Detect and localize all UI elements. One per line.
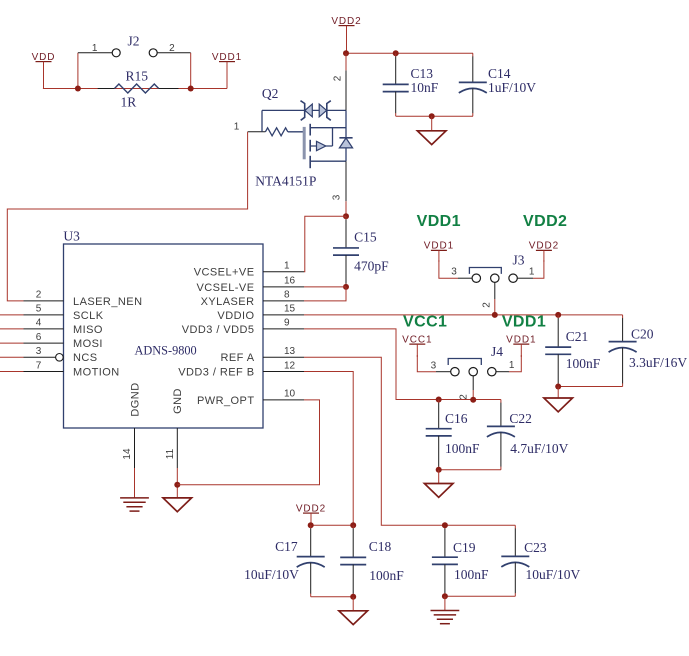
resistor R15	[98, 69, 179, 110]
svg-text:NCS: NCS	[73, 352, 98, 364]
svg-text:3: 3	[331, 194, 342, 200]
svg-text:U3: U3	[63, 228, 80, 243]
svg-text:100nF: 100nF	[369, 568, 404, 583]
svg-text:2: 2	[169, 43, 175, 54]
U3 pin 6 MOSI	[0, 332, 103, 350]
C16 body	[426, 400, 452, 470]
svg-text:12: 12	[284, 360, 296, 371]
svg-text:15: 15	[284, 304, 296, 315]
C21 body	[545, 315, 571, 387]
U3 pin 10 PWR_OPT	[197, 389, 304, 407]
wire: VDD to R15/J2 rail	[43, 88, 227, 90]
wire: REF A to right bottom rail	[304, 357, 515, 525]
wire: J4 pin2 down	[472, 390, 474, 400]
svg-text:VDD1: VDD1	[502, 314, 546, 331]
Q2 drain tap	[310, 127, 346, 129]
wire: stub to ground	[352, 597, 354, 611]
jumper J4	[431, 344, 515, 400]
junction C18 top	[350, 522, 356, 528]
U3 pin 3 NCS	[0, 346, 98, 364]
svg-text:C15: C15	[354, 230, 377, 245]
J3 pin2 stub	[494, 282, 496, 299]
U3 pin 13 REF A	[220, 346, 304, 364]
C23 body	[501, 525, 529, 596]
Q2 pin3 stub	[345, 161, 347, 201]
wire: C16/C22 bottom rail	[439, 469, 501, 471]
J2 pin2 lead	[157, 52, 191, 54]
wire: C17/C18 top rail	[311, 524, 354, 526]
U3 pin 2 LASER_NEN	[24, 290, 143, 308]
svg-text:14: 14	[122, 448, 133, 460]
earth ground (C19)	[431, 611, 460, 624]
U3 pin 5 SCLK	[0, 304, 104, 322]
power flag VCC1 J4	[402, 334, 432, 357]
wire: J2 pin1 elbow	[77, 53, 79, 89]
svg-text:100nF: 100nF	[566, 356, 601, 371]
junction gnd	[429, 113, 435, 119]
J3 shunt bracket	[469, 268, 501, 274]
svg-text:C14: C14	[488, 66, 511, 81]
junction J4 pin2	[470, 397, 476, 403]
wire: stub to earth	[444, 596, 446, 610]
Q2 gate plate	[303, 127, 306, 159]
C19 body	[432, 525, 458, 596]
svg-text:R15: R15	[126, 69, 149, 84]
svg-text:J4: J4	[491, 344, 503, 359]
U3 pin 9 VDD3 / VDD5	[182, 318, 304, 336]
C20 body	[609, 315, 637, 387]
junction C19 top	[442, 522, 448, 528]
C22 body	[487, 400, 515, 470]
svg-text:VCC1: VCC1	[403, 314, 447, 331]
svg-text:4.7uF/10V: 4.7uF/10V	[510, 441, 568, 456]
ground (C16/C22)	[424, 484, 453, 498]
power flag VDD1 J4	[506, 334, 536, 357]
wire: VDD3/REF B to left bottom rail	[304, 372, 353, 526]
svg-text:2: 2	[459, 394, 470, 400]
ground (C17/C18)	[339, 611, 368, 625]
svg-text:3.3uF/16V: 3.3uF/16V	[629, 355, 687, 370]
J2 pin1 lead	[78, 52, 112, 54]
svg-text:11: 11	[165, 448, 176, 459]
svg-text:MOSI: MOSI	[73, 338, 103, 350]
Q2 body arrow tap	[310, 145, 332, 147]
wire: J3 pin2 down to VDDIO net	[494, 299, 496, 315]
wire: VDD2 flag to J3 pin1	[533, 260, 544, 278]
svg-text:C18: C18	[369, 539, 392, 554]
junction GND	[174, 482, 180, 488]
svg-text:LASER_NEN: LASER_NEN	[73, 296, 142, 308]
svg-text:VCSEL+VE: VCSEL+VE	[194, 267, 255, 279]
C17 body	[297, 525, 325, 597]
wire: VDD3/VDD5 net to C16/C22 rail	[304, 329, 501, 400]
svg-text:2: 2	[482, 302, 493, 308]
svg-text:1R: 1R	[121, 95, 137, 110]
svg-text:C13: C13	[411, 66, 434, 81]
junction C16 top	[436, 397, 442, 403]
wire: stub to ground	[557, 387, 559, 399]
svg-text:1: 1	[234, 121, 240, 132]
svg-text:3: 3	[36, 346, 42, 357]
capacitor C20	[558, 386, 622, 388]
junction C15 bottom	[343, 284, 349, 290]
transistor Q2 NTA4151P	[234, 53, 353, 216]
svg-text:C19: C19	[453, 540, 476, 555]
wire: VCC1 flag to J4 pin3	[417, 355, 436, 372]
J2 pin2 circle	[149, 49, 157, 57]
J4 shunt bracket	[448, 359, 481, 366]
svg-text:7: 7	[36, 360, 42, 371]
IC U3 ADNS-9800 body	[64, 244, 264, 428]
U3 pin 7 MOTION	[0, 360, 120, 378]
wire: PWR_OPT to GND	[177, 400, 319, 485]
svg-text:MISO: MISO	[73, 324, 103, 336]
svg-text:100nF: 100nF	[445, 441, 480, 456]
svg-text:J3: J3	[513, 253, 525, 268]
svg-text:9: 9	[284, 318, 290, 329]
junction VDD2/Q2	[343, 50, 349, 56]
svg-text:4: 4	[36, 318, 42, 329]
svg-text:1: 1	[509, 360, 515, 371]
svg-text:VCSEL-VE: VCSEL-VE	[196, 282, 254, 294]
wire: XYLASER up to C15 bottom	[304, 287, 346, 301]
svg-text:XYLASER: XYLASER	[201, 296, 255, 308]
svg-text:1: 1	[92, 43, 98, 54]
power flag VDD text+stem	[32, 52, 56, 89]
svg-text:C20: C20	[631, 327, 654, 342]
U3 pin 4 MISO	[0, 318, 103, 336]
svg-text:MOTION: MOTION	[73, 366, 120, 378]
wire: VDD1 flag to J3 pin3	[439, 260, 458, 278]
svg-text:VDD3 / VDD5: VDD3 / VDD5	[182, 324, 255, 336]
svg-text:C22: C22	[509, 411, 532, 426]
svg-text:VDDIO: VDDIO	[217, 310, 254, 322]
svg-text:470pF: 470pF	[354, 259, 389, 274]
Q2 channel dashes	[309, 124, 311, 136]
wire: VDD2 rail to C13/C14	[346, 52, 473, 54]
wire: Q2 gate net down-left to U3 LASER_NEN	[7, 132, 247, 301]
Q2 source tap	[310, 160, 346, 162]
svg-text:13: 13	[284, 346, 296, 357]
wire: VCSEL+VE to Q2 drain	[304, 216, 346, 272]
U3 pin 14 DGND	[122, 382, 141, 468]
U3 pin 11 GND	[165, 388, 184, 468]
power flag VDD1 text+stem	[212, 52, 242, 89]
svg-text:REF A: REF A	[220, 352, 254, 364]
wire: C13/C14 bottom rail	[396, 115, 473, 117]
wire: VCSEL-VE to C15 bottom	[304, 286, 346, 288]
svg-text:1uF/10V: 1uF/10V	[488, 80, 536, 95]
svg-text:Q2: Q2	[262, 86, 279, 101]
junction C21 bottom	[555, 384, 561, 390]
svg-text:6: 6	[36, 332, 42, 343]
svg-text:2: 2	[332, 75, 343, 81]
svg-text:1: 1	[284, 261, 290, 272]
svg-text:16: 16	[284, 276, 296, 287]
Q2 gate resistor	[265, 128, 287, 136]
Q2 pin2 stub	[345, 70, 347, 110]
wire: stub to ground	[438, 470, 440, 484]
junction Q2 drain / C15	[343, 213, 349, 219]
svg-text:3: 3	[451, 267, 457, 278]
junction C18 bottom	[350, 594, 356, 600]
Q2 gate-source zeners	[262, 109, 346, 111]
U3 pin 16 VCSEL-VE	[196, 276, 304, 294]
U3 pin 1 VCSEL+VE	[194, 261, 304, 279]
svg-text:VDD1: VDD1	[417, 213, 461, 230]
wire: GND net	[176, 468, 178, 498]
C13 body	[383, 53, 409, 116]
junction C21 top	[555, 312, 561, 318]
svg-text:C17: C17	[275, 539, 298, 554]
svg-text:C23: C23	[524, 540, 547, 555]
C18 body	[340, 525, 366, 597]
svg-text:J2: J2	[128, 34, 140, 49]
U3 pin 12 VDD3 / REF B	[178, 360, 304, 378]
svg-text:C16: C16	[445, 411, 468, 426]
junction C19 bottom	[442, 593, 448, 599]
svg-text:100nF: 100nF	[454, 567, 489, 582]
ground (C13/C14)	[417, 131, 446, 145]
ground (GND)	[163, 498, 192, 512]
wire: DGND to earth	[134, 468, 136, 498]
jumper J3	[451, 253, 535, 308]
svg-text:C21: C21	[566, 329, 589, 344]
Q2 vertical drain/source rail with body diode	[345, 110, 347, 137]
Q2 pin1 lead	[248, 131, 266, 133]
svg-text:PWR_OPT: PWR_OPT	[197, 395, 255, 407]
svg-text:8: 8	[284, 290, 290, 301]
junction C16 bottom	[436, 467, 442, 473]
power flag VDD1 J3	[424, 241, 454, 262]
svg-text:VDD2: VDD2	[523, 213, 567, 230]
J4 pin2 stub	[472, 376, 474, 390]
junction J3/VDDIO	[492, 312, 498, 318]
svg-text:VDD3 / REF B: VDD3 / REF B	[178, 366, 254, 378]
U3 pin 8 XYLASER	[201, 290, 304, 308]
junction C13	[393, 50, 399, 56]
svg-text:10: 10	[284, 389, 296, 400]
wire: C19/C23 bottom rail	[445, 595, 515, 597]
junction VDD2/C17	[308, 522, 314, 528]
svg-text:10nF: 10nF	[411, 80, 439, 95]
power flag VDD2 bottom	[296, 503, 326, 525]
wire: C17/C18 bottom rail	[311, 596, 354, 598]
wire: VDDIO net (long)	[304, 314, 623, 316]
junction	[75, 86, 81, 92]
wire: J2 pin2 elbow	[190, 53, 192, 89]
C14 body	[459, 53, 487, 116]
svg-text:3: 3	[431, 361, 437, 372]
wire: VDD1 flag to J4 pin1	[509, 355, 521, 372]
connector J2	[78, 34, 191, 89]
svg-text:10uF/10V: 10uF/10V	[244, 567, 299, 582]
svg-text:2: 2	[36, 290, 42, 301]
U3 pin 15 VDDIO	[217, 304, 304, 322]
earth ground (DGND)	[120, 498, 149, 511]
svg-text:ADNS-9800: ADNS-9800	[135, 343, 197, 357]
wire: stub to ground	[431, 116, 433, 131]
svg-text:NTA4151P: NTA4151P	[255, 174, 316, 189]
svg-text:5: 5	[36, 304, 42, 315]
ground (C21/C20)	[544, 398, 573, 412]
C15 body	[333, 216, 359, 287]
svg-text:SCLK: SCLK	[73, 310, 104, 322]
svg-text:10uF/10V: 10uF/10V	[526, 567, 581, 582]
power flag VDD2 text+stem	[331, 16, 361, 53]
junction	[188, 86, 194, 92]
J2 pin1 circle	[112, 49, 120, 57]
svg-text:GND: GND	[172, 388, 184, 414]
power flag VDD2 J3	[529, 241, 559, 262]
svg-text:DGND: DGND	[129, 382, 141, 416]
svg-text:1: 1	[529, 267, 535, 278]
